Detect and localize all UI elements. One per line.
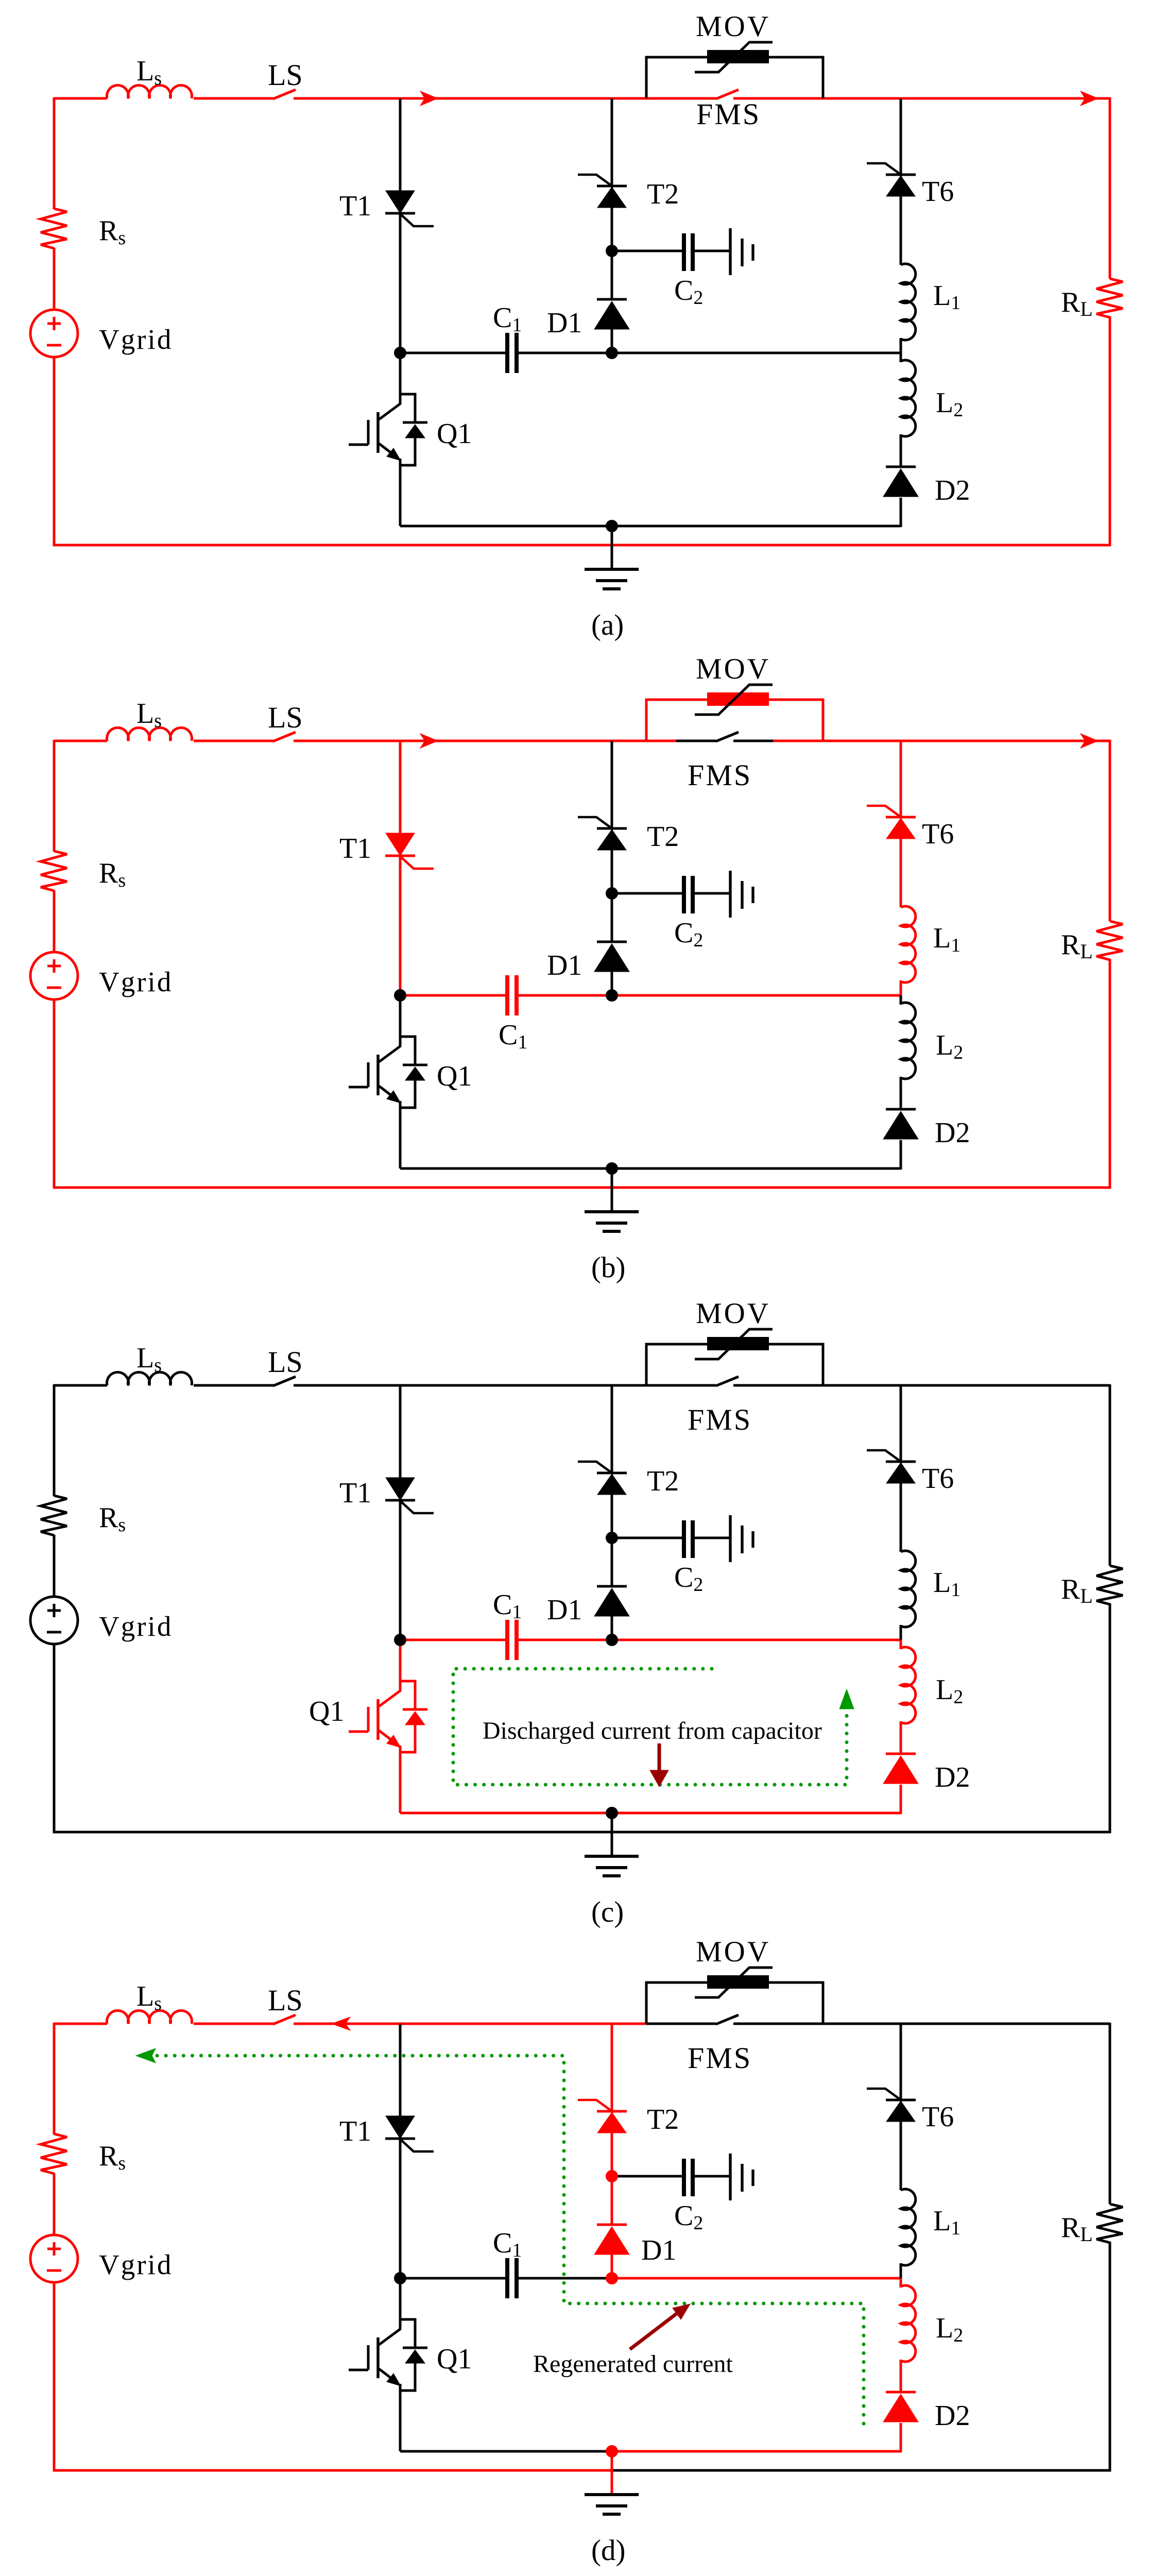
svg-text:D2: D2: [935, 1761, 970, 1793]
wire C2 node to capacitor: [612, 250, 682, 252]
wire top rail left segment: [54, 740, 107, 742]
wire left rail lower: [53, 1644, 56, 1833]
node ground junction: [606, 520, 618, 532]
transistor Q1: [349, 1640, 427, 1813]
wire left rail middle: [53, 248, 56, 310]
wire C2 to ground: [694, 892, 730, 895]
node ground junction: [606, 1807, 618, 1819]
wire between Ls and switch LS: [194, 1384, 274, 1387]
wire C2 node to capacitor: [612, 2175, 682, 2178]
svg-text:D1: D1: [641, 2234, 676, 2266]
inductor L1: [901, 264, 916, 340]
svg-text:T2: T2: [647, 1465, 679, 1497]
node D1-C1 junction: [606, 2272, 618, 2284]
wire C2 node to capacitor: [612, 892, 682, 895]
varistor MOV body: [707, 50, 769, 63]
source Vgrid: [30, 310, 78, 357]
wire top rail segment 1: [294, 2023, 646, 2025]
wire junction to L2: [900, 353, 902, 362]
svg-text:FMS: FMS: [688, 2041, 752, 2075]
switch LS: [273, 2015, 296, 2024]
svg-text:T6: T6: [922, 1463, 954, 1495]
wire top rail left segment: [54, 1384, 107, 1387]
capacitor C1: [505, 1620, 509, 1660]
wire mid row C1 to D1 node: [519, 1639, 612, 1641]
varistor MOV body: [707, 692, 769, 706]
thyristor T6: [886, 1461, 916, 1463]
wire between Ls and switch LS: [194, 740, 274, 742]
thyristor T2: [597, 2110, 627, 2113]
ground C2 side: [729, 1515, 731, 1562]
node T1-C1-Q1 junction: [394, 2272, 406, 2284]
source Vgrid: [30, 1597, 78, 1644]
wire C2 to ground: [694, 250, 730, 252]
wire right rail upper: [1109, 1384, 1111, 1566]
svg-text:(c): (c): [591, 1896, 624, 1928]
annotation discharge arrow: [658, 1743, 661, 1772]
svg-text:D1: D1: [547, 1594, 582, 1626]
wire top rail segment 2: [646, 2023, 716, 2025]
wire bottom inner segment 1: [400, 1167, 901, 1170]
wire MOV bracket: [646, 1344, 823, 1385]
wire between Ls and switch LS: [194, 2023, 274, 2025]
wire T1 branch upper: [399, 741, 402, 834]
wire between Ls and switch LS: [194, 97, 274, 100]
wire T2 to C2 node: [611, 207, 613, 299]
capacitor C2: [682, 1520, 686, 1558]
wire right rail lower: [1109, 2242, 1111, 2471]
current direction arrow: [420, 734, 438, 748]
svg-text:D2: D2: [935, 474, 970, 506]
svg-text:Q1: Q1: [437, 2343, 472, 2375]
wire top rail segment 3: [733, 2023, 1110, 2025]
varistor MOV strike: [695, 1329, 773, 1359]
source Vgrid: [30, 952, 78, 999]
diode D2: [886, 466, 916, 468]
wire mid row left of C1: [400, 352, 505, 354]
wire ground stub: [611, 1168, 613, 1212]
capacitor C1: [505, 975, 509, 1015]
resistor RL: [1096, 279, 1123, 317]
wire L1 to junction: [900, 2263, 902, 2279]
wire D2 to bottom: [900, 498, 902, 527]
diode D1: [597, 941, 627, 943]
wire T2 branch upper: [611, 741, 613, 829]
resistor RL: [1096, 2204, 1123, 2243]
thyristor T2: [597, 185, 627, 188]
switch LS: [273, 1377, 296, 1386]
svg-text:(b): (b): [591, 1251, 625, 1284]
wire mid row C1 to D1 node: [519, 352, 612, 354]
wire bottom inner segment 1: [400, 1812, 901, 1815]
wire T1 branch lower: [399, 1499, 402, 1641]
wire T6 branch upper: [900, 2024, 902, 2101]
wire top rail left segment: [54, 2023, 107, 2025]
wire left rail lower: [53, 2282, 56, 2471]
svg-text:T1: T1: [339, 833, 371, 865]
annotation green arrow left: [136, 2048, 156, 2063]
ground: [585, 2493, 639, 2496]
thyristor T1: [386, 1478, 415, 1500]
wire T1 branch upper: [399, 2024, 402, 2117]
svg-text:FMS: FMS: [688, 758, 752, 792]
svg-text:D2: D2: [935, 2400, 970, 2432]
wire T1 branch lower: [399, 855, 402, 996]
wire top rail segment 4: [773, 740, 1110, 742]
wire top rail left segment: [54, 97, 107, 100]
ground: [585, 1210, 639, 1213]
switch LS: [273, 732, 296, 741]
capacitor C1: [505, 2258, 509, 2298]
inductor Ls: [107, 2010, 192, 2024]
node D1-C1 junction: [606, 989, 618, 1002]
wire D2 to bottom: [900, 1140, 902, 1170]
wire D1 to mid row node: [611, 972, 613, 996]
switch FMS: [716, 90, 739, 99]
inductor L2: [901, 1647, 916, 1723]
svg-text:T6: T6: [922, 176, 954, 208]
svg-text:FMS: FMS: [696, 97, 761, 131]
wire right rail lower: [1109, 316, 1111, 546]
wire mid row right: [612, 1639, 901, 1641]
wire mid row C1 to D1 node: [519, 994, 612, 997]
wire L1 to junction: [900, 338, 902, 354]
wire mid row right: [612, 994, 901, 997]
wire C2 node to capacitor: [612, 1537, 682, 1539]
capacitor C2: [682, 876, 686, 913]
wire T2 to C2 node: [611, 1494, 613, 1586]
node T2-C2 junction: [606, 1532, 618, 1544]
svg-text:T1: T1: [339, 2115, 371, 2147]
svg-text:Vgrid: Vgrid: [99, 1611, 173, 1642]
varistor MOV body: [707, 1337, 769, 1350]
wire L1 to junction: [900, 1625, 902, 1641]
wire L2 to D2: [900, 1721, 902, 1755]
thyristor T2: [597, 827, 627, 830]
wire L2 to D2: [900, 1077, 902, 1110]
node ground junction: [606, 1162, 618, 1175]
diode D1: [597, 2224, 627, 2226]
node T1-C1-Q1 junction: [394, 1634, 406, 1646]
wire mid row left of C1: [400, 994, 505, 997]
wire T6 to L1: [900, 1482, 902, 1552]
wire T2 to C2 node: [611, 2132, 613, 2225]
thyristor T2: [597, 1472, 627, 1475]
svg-text:Q1: Q1: [437, 418, 472, 450]
wire T1 branch upper: [399, 1385, 402, 1479]
wire left rail middle: [53, 1535, 56, 1597]
resistor RL: [1096, 921, 1123, 960]
varistor MOV strike: [695, 1968, 773, 1997]
inductor L2: [901, 1003, 916, 1079]
wire top rail segment 2: [676, 740, 716, 742]
diode D2: [886, 2391, 916, 2394]
wire left rail middle: [53, 890, 56, 952]
svg-text:LS: LS: [268, 58, 303, 92]
wire D1 to mid row node: [611, 1616, 613, 1641]
wire junction to L2: [900, 995, 902, 1005]
svg-text:Vgrid: Vgrid: [99, 324, 173, 355]
thyristor T1: [386, 833, 415, 856]
wire left rail upper: [53, 740, 56, 852]
diode D2: [886, 1108, 916, 1111]
svg-text:Regenerated current: Regenerated current: [533, 2350, 733, 2378]
svg-text:Vgrid: Vgrid: [99, 966, 173, 997]
capacitor C1: [505, 333, 509, 373]
wire bottom outer rail segment 1: [53, 1187, 1111, 1189]
svg-text:T1: T1: [339, 190, 371, 222]
wire bottom inner segment 1: [400, 2450, 612, 2453]
diode D2: [886, 1753, 916, 1755]
node T2-C2 junction: [606, 245, 618, 257]
wire MOV bracket: [646, 1982, 823, 2024]
wire T6 to L1: [900, 838, 902, 907]
node ground junction: [606, 2445, 618, 2458]
thyristor T6: [886, 2099, 916, 2102]
wire T2 branch upper: [611, 98, 613, 187]
wire mid row right: [612, 2277, 901, 2280]
current direction arrow: [1081, 91, 1098, 106]
node D1-C1 junction: [606, 347, 618, 359]
switch FMS: [716, 2015, 739, 2024]
wire T2 branch upper: [611, 1385, 613, 1474]
thyristor T1: [386, 2116, 415, 2139]
resistor Rs: [41, 209, 67, 248]
wire mid row left of C1: [400, 1639, 505, 1641]
thyristor T1: [386, 191, 415, 213]
varistor MOV strike: [695, 42, 773, 72]
svg-text:(a): (a): [591, 609, 624, 641]
wire top rail segment 1: [294, 97, 716, 100]
wire bottom inner segment 1: [400, 525, 901, 528]
svg-text:LS: LS: [268, 701, 303, 734]
ground C2 side: [729, 228, 731, 275]
wire left rail upper: [53, 1384, 56, 1496]
diode D1: [597, 1585, 627, 1588]
varistor MOV strike: [695, 685, 773, 715]
wire T2 branch upper: [611, 2024, 613, 2112]
transistor Q1: [349, 995, 427, 1168]
ground C2 side: [729, 2154, 731, 2200]
svg-text:Q1: Q1: [309, 1696, 344, 1727]
wire bottom inner segment 2: [612, 2450, 901, 2453]
wire MOV bracket: [646, 57, 823, 98]
wire ground stub: [611, 1813, 613, 1856]
svg-text:D1: D1: [547, 307, 582, 339]
resistor RL: [1096, 1566, 1123, 1604]
wire D1 to mid row node: [611, 329, 613, 354]
wire C2 to ground: [694, 2175, 730, 2178]
wire C2 to ground: [694, 1537, 730, 1539]
wire junction to L2: [900, 2278, 902, 2287]
svg-text:T2: T2: [647, 178, 679, 210]
ground C2 side: [729, 871, 731, 918]
inductor L2: [901, 2285, 916, 2362]
switch FMS: [716, 732, 739, 741]
wire left rail upper: [53, 2023, 56, 2134]
svg-text:Q1: Q1: [437, 1060, 472, 1092]
wire T6 to L1: [900, 195, 902, 265]
wire T6 branch upper: [900, 98, 902, 176]
svg-text:D2: D2: [935, 1117, 970, 1149]
wire T2 to C2 node: [611, 849, 613, 942]
wire bottom outer rail segment 1: [53, 544, 1111, 547]
svg-text:MOV: MOV: [696, 1297, 770, 1330]
wire top rail segment 1: [294, 1384, 716, 1387]
wire MOV bracket: [646, 700, 823, 741]
wire right rail lower: [1109, 959, 1111, 1189]
svg-text:(d): (d): [591, 2534, 625, 2567]
inductor Ls: [107, 1372, 192, 1385]
node T1-C1-Q1 junction: [394, 347, 406, 359]
capacitor C2: [682, 233, 686, 271]
inductor L1: [901, 2189, 916, 2265]
ground: [585, 568, 639, 571]
wire bottom outer rail segment 2: [611, 2469, 1111, 2472]
wire ground stub: [611, 2451, 613, 2495]
wire junction to L2: [900, 1640, 902, 1649]
wire T1 branch lower: [399, 2138, 402, 2279]
wire bottom outer rail segment 1: [53, 1831, 1111, 1834]
wire right rail upper: [1109, 97, 1111, 279]
source Vgrid: [30, 2235, 78, 2282]
wire L1 to junction: [900, 980, 902, 996]
wire T1 branch lower: [399, 212, 402, 354]
varistor MOV body: [707, 1975, 769, 1989]
svg-text:Vgrid: Vgrid: [99, 2249, 173, 2280]
svg-text:LS: LS: [268, 1984, 303, 2017]
thyristor T6: [886, 816, 916, 819]
ground: [585, 1855, 639, 1858]
svg-text:T2: T2: [647, 821, 679, 853]
wire mid row left of C1: [400, 2277, 505, 2280]
annotation green arrow up: [839, 1689, 854, 1709]
annotation green dotted loop: [453, 1669, 847, 1785]
thyristor T6: [886, 174, 916, 176]
current direction arrow: [420, 91, 438, 106]
wire top rail segment 1: [294, 740, 676, 742]
wire bottom outer rail segment 1: [53, 2469, 611, 2472]
node D1-C1 junction: [606, 1634, 618, 1646]
transistor Q1: [349, 2278, 427, 2451]
wire D1 to mid row node: [611, 2255, 613, 2279]
wire top rail segment 2: [733, 97, 1110, 100]
svg-text:LS: LS: [268, 1345, 303, 1379]
current direction arrow: [332, 2017, 350, 2030]
inductor L2: [901, 360, 916, 436]
wire T6 branch upper: [900, 741, 902, 818]
svg-text:D1: D1: [547, 950, 582, 981]
svg-text:MOV: MOV: [696, 1936, 770, 1968]
wire right rail upper: [1109, 2023, 1111, 2204]
annotation regenerated arrow: [630, 2313, 678, 2349]
svg-text:T6: T6: [922, 2101, 954, 2133]
svg-text:T1: T1: [339, 1477, 371, 1509]
wire mid row right: [612, 352, 901, 354]
wire T1 branch upper: [399, 98, 402, 192]
wire ground stub: [611, 526, 613, 569]
wire top rail segment 2: [733, 1384, 1110, 1387]
wire D2 to bottom: [900, 1785, 902, 1814]
switch FMS: [716, 1377, 739, 1386]
svg-text:MOV: MOV: [696, 653, 770, 685]
node T1-C1-Q1 junction: [394, 989, 406, 1002]
wire D2 to bottom: [900, 2423, 902, 2452]
inductor L1: [901, 906, 916, 982]
wire left rail lower: [53, 999, 56, 1189]
wire mid row C1 to D1 node: [519, 2277, 612, 2280]
transistor Q1: [349, 353, 427, 526]
wire left rail lower: [53, 357, 56, 546]
resistor Rs: [41, 851, 67, 891]
svg-text:Discharged current from capaci: Discharged current from capacitor: [483, 1717, 822, 1744]
wire T6 to L1: [900, 2121, 902, 2190]
switch LS: [273, 90, 296, 99]
inductor Ls: [107, 727, 192, 741]
wire top rail segment 3: [733, 740, 773, 742]
wire right rail upper: [1109, 740, 1111, 921]
svg-text:MOV: MOV: [696, 10, 770, 43]
wire T6 branch upper: [900, 1385, 902, 1463]
node T2-C2 junction: [606, 2170, 618, 2182]
inductor L1: [901, 1551, 916, 1627]
wire left rail middle: [53, 2173, 56, 2235]
wire left rail upper: [53, 97, 56, 209]
inductor Ls: [107, 85, 192, 98]
svg-text:T2: T2: [647, 2104, 679, 2136]
resistor Rs: [41, 2134, 67, 2174]
node T2-C2 junction: [606, 887, 618, 900]
capacitor C2: [682, 2159, 686, 2196]
svg-text:FMS: FMS: [688, 1403, 752, 1436]
wire L2 to D2: [900, 2360, 902, 2393]
annotation green dotted path: [157, 2056, 864, 2430]
wire L2 to D2: [900, 434, 902, 468]
svg-text:T6: T6: [922, 818, 954, 850]
wire right rail lower: [1109, 1603, 1111, 1833]
resistor Rs: [41, 1496, 67, 1535]
current direction arrow: [1081, 734, 1098, 748]
diode D1: [597, 298, 627, 301]
